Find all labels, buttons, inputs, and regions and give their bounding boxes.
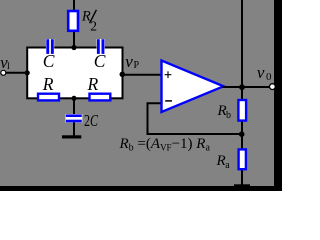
wire vI to box xyxy=(3,72,27,74)
resistor Ra xyxy=(239,149,246,169)
output vertical rail xyxy=(241,0,243,185)
wire op-amp minus input xyxy=(148,103,242,134)
svg-text:v: v xyxy=(257,63,265,82)
resistor Rb xyxy=(238,100,246,121)
svg-text:R: R xyxy=(42,74,54,94)
svg-text:v: v xyxy=(125,52,133,71)
ground (Ra) xyxy=(234,184,250,188)
resistor R (right) xyxy=(90,94,111,101)
resistor R (left) xyxy=(38,94,59,101)
svg-text:0: 0 xyxy=(266,71,272,83)
wire 2C to ground xyxy=(73,122,75,135)
op-amp - symbol xyxy=(165,100,172,102)
wire op-amp output xyxy=(223,86,273,88)
wire R/2 bottom xyxy=(73,32,75,48)
wire vP to op-amp + xyxy=(122,74,162,76)
ground (2C) xyxy=(62,135,81,138)
node vI at box xyxy=(25,70,30,75)
svg-text:2: 2 xyxy=(90,18,97,33)
svg-text:a: a xyxy=(225,160,230,171)
node: top junction xyxy=(71,45,76,50)
terminal circle vI xyxy=(1,70,6,75)
svg-text:P: P xyxy=(134,60,140,71)
node output xyxy=(239,84,245,90)
svg-text:2C: 2C xyxy=(84,111,99,130)
svg-text:C: C xyxy=(94,51,106,71)
svg-text:I: I xyxy=(7,61,10,71)
capacitor C (left) xyxy=(46,39,54,54)
resistor R/2 xyxy=(68,11,78,31)
capacitor 2C xyxy=(66,114,83,123)
op-amp U1 xyxy=(162,61,224,113)
svg-text:C: C xyxy=(43,51,55,71)
terminal vo xyxy=(270,84,276,90)
svg-text:R: R xyxy=(87,74,99,94)
node vP xyxy=(120,72,126,78)
twin-T white box outline (wires) xyxy=(27,48,122,99)
svg-text:R: R xyxy=(216,153,226,169)
wire to 2C xyxy=(73,98,75,114)
svg-text:b: b xyxy=(226,110,231,121)
capacitor C (right) xyxy=(97,39,105,54)
op-amp + symbol xyxy=(165,71,172,78)
wire top feed to R/2 xyxy=(73,0,75,10)
node: bottom junction xyxy=(72,96,77,101)
node feedback junction xyxy=(239,131,245,137)
